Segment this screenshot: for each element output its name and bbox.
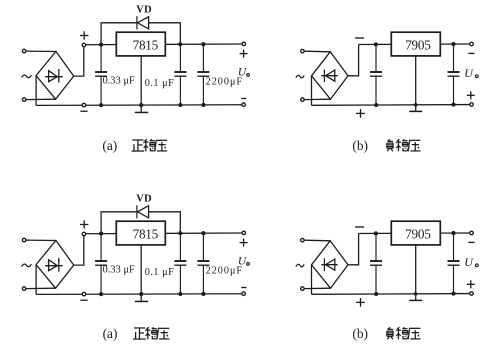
- bridge diode symbol: [45, 258, 63, 272]
- junction dots (b): [374, 42, 378, 46]
- + mark above bottom output terminal (b): [467, 91, 475, 99]
- wire: bottom terminal to bridge bottom corner (b): [304, 98, 330, 100]
- svg-text:0.1 μF: 0.1 μF: [145, 267, 175, 278]
- output terminal + (top right): [242, 231, 246, 235]
- diode VD: [137, 16, 149, 29]
- bridge diode symbol (b), pointing left: [321, 69, 337, 82]
- wire: bottom terminal to bridge bottom corner (b): [304, 287, 330, 289]
- junction dots (b): [374, 231, 378, 235]
- ~ AC symbol: [22, 75, 32, 78]
- top (+) rail: [86, 43, 242, 46]
- svg-text:(b): (b): [352, 138, 368, 153]
- output terminal - (bottom right): [242, 103, 246, 107]
- label Uo (b): [464, 66, 478, 80]
- wire: bridge left corner down to + rail (b): [311, 265, 313, 295]
- svg-text:(a): (a): [103, 326, 118, 341]
- bridge rectifier diamond: [36, 51, 74, 99]
- + polarity mark above node: [80, 31, 88, 39]
- 7815 ground pin to rail: [140, 56, 142, 112]
- wire: bridge right corner up to - rail (b): [348, 234, 359, 265]
- output terminal - (top right, b): [470, 231, 474, 235]
- - polarity mark below node: [80, 299, 87, 301]
- 7905 ground pin to rail (b): [415, 56, 417, 111]
- + polarity mark above node: [80, 220, 88, 228]
- + node terminal: [82, 232, 86, 236]
- capacitor C5 output (b): [448, 44, 460, 105]
- svg-text:7815: 7815: [133, 37, 159, 52]
- + mark below output terminal: [240, 239, 248, 247]
- capacitor C5 output (b): [448, 233, 460, 294]
- svg-text:(b): (b): [352, 326, 368, 341]
- svg-text:VD: VD: [136, 194, 152, 205]
- top (-) rail (b): [359, 43, 470, 46]
- AC input terminal bottom-left (b): [301, 98, 305, 102]
- svg-text:0.33 μF: 0.33 μF: [103, 264, 135, 275]
- svg-text:U: U: [238, 255, 247, 267]
- bottom (-) rail: [36, 293, 242, 296]
- caption (a) row 2: [103, 326, 170, 341]
- 7815 ground pin to rail: [140, 245, 142, 301]
- AC input terminal bottom-left (b): [301, 287, 305, 291]
- bridge diode symbol (b), pointing left: [321, 258, 337, 271]
- capacitor C1 0.33uF: [95, 45, 107, 106]
- regulator U1 7815: [116, 32, 165, 56]
- top (-) rail (b): [359, 232, 470, 235]
- output terminal + (bottom right, b): [470, 103, 474, 107]
- - mark below output terminal (b): [468, 241, 474, 243]
- AC input terminal top-left (b): [301, 49, 305, 53]
- caption (b) row 2: [352, 326, 420, 341]
- bottom (+) rail (b): [312, 104, 470, 107]
- - node circle on bottom rail: [82, 292, 86, 296]
- regulator U1 7815: [116, 221, 165, 245]
- bridge rectifier diamond: [36, 240, 74, 288]
- ~ AC symbol: [22, 264, 32, 267]
- wire: bridge left corner down to + rail (b): [311, 76, 313, 106]
- + polarity mark bottom-left (b): [356, 109, 365, 118]
- top (+) rail: [86, 232, 242, 235]
- junction dots top rail: [99, 43, 103, 47]
- - mark above bottom output terminal: [241, 287, 246, 289]
- bottom (-) rail: [36, 104, 242, 107]
- bridge rectifier diamond (b): [312, 52, 349, 99]
- svg-text:0.33 μF: 0.33 μF: [103, 75, 135, 86]
- ground bar: [135, 300, 148, 302]
- AC input terminal top-left: [22, 49, 26, 53]
- AC input terminal top-left (b): [301, 238, 305, 242]
- wire: top terminal to bridge top corner (b): [304, 50, 330, 53]
- output terminal + (bottom right, b): [470, 292, 474, 296]
- + mark below output terminal: [240, 50, 248, 58]
- junction dots bottom rail: [99, 103, 103, 107]
- capacitor C4 input (b): [370, 233, 382, 294]
- VD protection diode loop wire: [101, 23, 137, 45]
- - node circle on bottom rail: [82, 103, 86, 107]
- - mark below output terminal (b): [468, 52, 474, 54]
- capacitor C1 0.33uF: [95, 234, 107, 295]
- regulator U2 7905: [391, 32, 440, 56]
- ~ AC symbol (b): [296, 75, 304, 78]
- VD protection diode loop wire: [101, 212, 137, 234]
- output terminal - (bottom right): [242, 292, 246, 296]
- diode VD: [137, 205, 149, 218]
- ~ AC symbol (b): [296, 264, 304, 267]
- label Uo: [238, 66, 249, 78]
- svg-text:7905: 7905: [405, 37, 431, 52]
- 7905 ground pin to rail (b): [415, 245, 417, 300]
- junction dots bottom rail: [99, 292, 103, 296]
- wire: bridge right corner to + node: [74, 47, 84, 77]
- capacitor C3 2200uF: [197, 44, 209, 105]
- capacitor C4 input (b): [370, 44, 382, 105]
- AC input terminal bottom-left: [22, 98, 26, 102]
- caption (b) row 1: [352, 138, 420, 153]
- wire: top terminal to bridge top corner: [26, 239, 56, 241]
- output terminal + (top right): [242, 42, 246, 46]
- svg-text:7815: 7815: [133, 226, 159, 241]
- capacitor C2 0.1uF: [174, 44, 186, 105]
- + node terminal: [82, 43, 86, 47]
- svg-text:0.1 μF: 0.1 μF: [145, 78, 175, 89]
- capacitor C2 0.1uF: [174, 233, 186, 294]
- svg-text:VD: VD: [136, 5, 152, 16]
- ground bar: [135, 111, 148, 113]
- wire: bridge right corner to + node: [74, 236, 84, 266]
- svg-text:7905: 7905: [405, 226, 431, 241]
- wire: top terminal to bridge top corner: [26, 50, 56, 52]
- bridge rectifier diamond (b): [312, 241, 349, 288]
- svg-text:U: U: [464, 255, 474, 269]
- ground bar (b): [409, 299, 422, 301]
- AC input terminal top-left: [22, 238, 26, 242]
- wire: top terminal to bridge top corner (b): [304, 239, 330, 242]
- wire: bottom terminal to bridge bottom corner: [26, 98, 56, 100]
- wire: bridge left corner down to negative rail: [35, 265, 37, 295]
- wire: bottom terminal to bridge bottom corner: [26, 287, 56, 289]
- - mark above bottom output terminal: [241, 98, 246, 100]
- wire: bridge right corner up to - rail (b): [348, 45, 359, 76]
- AC input terminal bottom-left: [22, 287, 26, 291]
- ground bar (b): [409, 110, 422, 112]
- bottom (+) rail (b): [312, 293, 470, 296]
- label Uo (b): [464, 255, 478, 269]
- junction dots top rail: [99, 232, 103, 236]
- - polarity mark top-left (b): [355, 37, 364, 39]
- output terminal - (top right, b): [470, 42, 474, 46]
- + polarity mark bottom-left (b): [356, 298, 365, 307]
- - polarity mark below node: [80, 110, 87, 112]
- regulator U2 7905: [391, 221, 440, 245]
- - polarity mark top-left (b): [355, 226, 364, 228]
- + mark above bottom output terminal (b): [467, 280, 475, 288]
- label Uo: [238, 255, 249, 267]
- svg-text:U: U: [464, 66, 474, 80]
- caption (a) row 1: [102, 138, 167, 153]
- bridge diode symbol: [45, 69, 63, 83]
- svg-text:(a): (a): [102, 138, 117, 153]
- capacitor C3 2200uF: [197, 233, 209, 294]
- svg-text:U: U: [238, 66, 247, 78]
- wire: bridge left corner down to negative rail: [35, 76, 37, 106]
